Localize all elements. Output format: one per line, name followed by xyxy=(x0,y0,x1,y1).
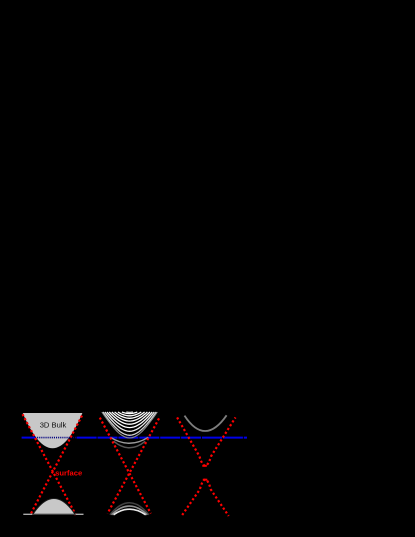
svg-text:3D Bulk: 3D Bulk xyxy=(40,421,67,430)
panel 3: gapped surface state, lower branch xyxy=(182,480,229,516)
svg-text:surface: surface xyxy=(55,469,82,478)
panel 3: bulk conduction band (gray parabola) xyxy=(185,415,227,431)
Fermi level (blue line), solid left segment xyxy=(22,437,35,439)
panel 1: valence band dome xyxy=(33,499,75,515)
panel 3: lower branch vertex dash xyxy=(203,479,208,481)
panel 1: 3D bulk conduction band (gray filled region) xyxy=(23,413,83,448)
panel 1: baseline xyxy=(23,513,83,515)
panel 2: Dirac cone (red dashed X) xyxy=(100,418,151,514)
panel 3: gapped surface state, upper branch xyxy=(177,417,235,465)
panel 2: quantized conduction subbands xyxy=(102,412,157,448)
panel 1: surface-state Dirac cone (red dashed X) xyxy=(23,414,76,515)
panel 3: upper branch vertex dash xyxy=(202,465,207,467)
panel 2: quantized valence subbands xyxy=(110,503,149,515)
Fermi level solid main segment xyxy=(77,437,247,439)
Fermi level dotted across bulk cone xyxy=(35,437,76,439)
